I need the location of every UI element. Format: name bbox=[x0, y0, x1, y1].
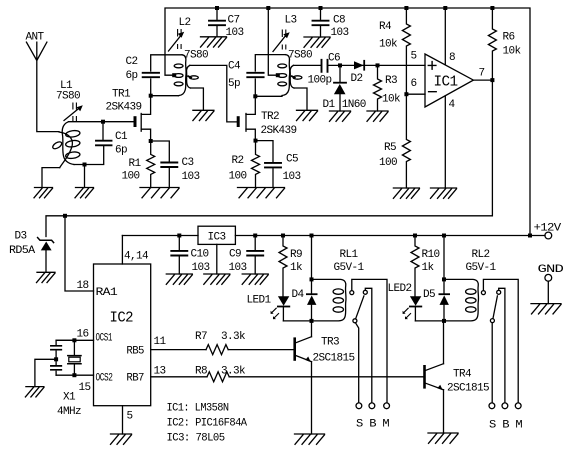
label parts list bbox=[167, 403, 248, 445]
crystal X1 4MHz bbox=[57, 340, 81, 418]
svg-text:D4: D4 bbox=[292, 289, 305, 301]
svg-text:C9: C9 bbox=[229, 249, 241, 261]
wire L2 secondary bottom to ground bbox=[190, 88, 203, 110]
svg-text:R1: R1 bbox=[129, 158, 142, 170]
svg-text:L3: L3 bbox=[285, 15, 297, 27]
node OCS2 bbox=[72, 373, 76, 377]
svg-text:TR3: TR3 bbox=[321, 337, 339, 349]
wire L3 rail drop bbox=[268, 8, 278, 75]
node rail-pin8 bbox=[443, 6, 447, 10]
ground TR4 bbox=[428, 433, 458, 443]
svg-text:RD5A: RD5A bbox=[9, 245, 36, 257]
wire detector line bbox=[293, 64, 425, 66]
svg-text:C6: C6 bbox=[328, 53, 340, 65]
wire +B top rail bbox=[165, 8, 530, 236]
ground C10 bbox=[166, 274, 192, 284]
transistor TR3 2SC1815 bbox=[295, 321, 355, 434]
svg-text:10k: 10k bbox=[379, 39, 398, 51]
wire LED1 to node bbox=[283, 320, 311, 322]
relay RL1 contacts bbox=[350, 279, 387, 403]
ground C8 bbox=[304, 37, 330, 47]
wire 5V line bbox=[122, 235, 198, 237]
svg-text:7S80: 7S80 bbox=[56, 91, 80, 103]
svg-text:G5V-1: G5V-1 bbox=[334, 262, 365, 274]
capacitor C7 103 bbox=[209, 8, 244, 39]
pin 15 wire bbox=[56, 374, 93, 376]
node TR1 drain bbox=[149, 94, 153, 98]
svg-text:D5: D5 bbox=[423, 289, 435, 301]
svg-text:6: 6 bbox=[411, 78, 417, 90]
node R4 R5 pin6 bbox=[404, 92, 408, 96]
svg-text:R4: R4 bbox=[379, 21, 392, 33]
node RA1 branch bbox=[63, 214, 67, 218]
diode D4 bbox=[292, 279, 317, 321]
node caps mid bbox=[54, 357, 58, 361]
relay RL1 G5V-1 bbox=[312, 249, 365, 321]
svg-text:TR1: TR1 bbox=[112, 89, 131, 101]
svg-text:5p: 5p bbox=[228, 78, 240, 90]
svg-text:G5V-1: G5V-1 bbox=[466, 262, 497, 274]
svg-text:2SC1815: 2SC1815 bbox=[447, 383, 489, 395]
svg-text:R5: R5 bbox=[384, 142, 396, 154]
terminal GND bbox=[538, 264, 565, 304]
wire RA1 branch bbox=[65, 216, 94, 291]
svg-text:RB5: RB5 bbox=[126, 346, 143, 358]
svg-text:D3: D3 bbox=[15, 231, 27, 243]
node C1 top bbox=[101, 120, 105, 124]
svg-text:C7: C7 bbox=[228, 15, 240, 27]
node C10 bbox=[177, 234, 181, 238]
svg-text:C3: C3 bbox=[182, 157, 194, 169]
ground GND terminal bbox=[531, 304, 561, 314]
node RL2 bottom bbox=[442, 319, 446, 323]
svg-text:TR4: TR4 bbox=[453, 369, 472, 381]
svg-text:1k: 1k bbox=[290, 262, 303, 274]
terminal RL2 S bbox=[489, 403, 495, 409]
node TR1 source bbox=[149, 139, 153, 143]
capacitor C9 103 bbox=[229, 236, 264, 275]
terminal RL2 M bbox=[515, 403, 521, 409]
svg-text:IC1: IC1 bbox=[434, 74, 459, 91]
capacitor C3 103 bbox=[151, 141, 200, 188]
coil L1 7S80 bbox=[52, 80, 83, 168]
resistor R10 1k bbox=[411, 236, 440, 297]
coil L2 7S80 bbox=[169, 17, 209, 96]
svg-text:C2: C2 bbox=[126, 56, 138, 68]
svg-text:3.3k: 3.3k bbox=[221, 331, 246, 343]
svg-text:OCS1: OCS1 bbox=[96, 333, 113, 345]
capacitor C8 103 bbox=[313, 8, 349, 39]
wire L1 bottom gnd leg bbox=[84, 165, 86, 188]
node rail-C8 bbox=[319, 6, 323, 10]
svg-text:C10: C10 bbox=[191, 249, 209, 261]
svg-text:10k: 10k bbox=[503, 46, 522, 58]
svg-text:IC1: LM358N: IC1: LM358N bbox=[167, 403, 229, 415]
svg-text:LED1: LED1 bbox=[247, 295, 272, 307]
capacitor X1 top bbox=[51, 340, 75, 359]
svg-text:3.3k: 3.3k bbox=[221, 366, 246, 378]
ground R3 bbox=[367, 111, 388, 121]
svg-text:7S80: 7S80 bbox=[288, 50, 312, 62]
coil L3 7S80 bbox=[273, 15, 312, 96]
svg-text:OCS2: OCS2 bbox=[96, 373, 113, 385]
ground L3 secondary bbox=[297, 110, 318, 120]
ground IC2 pin5 bbox=[111, 434, 132, 444]
svg-text:IC3: 78L05: IC3: 78L05 bbox=[167, 433, 225, 445]
node rail-R4 bbox=[404, 6, 408, 10]
capacitor C10 103 bbox=[171, 236, 209, 275]
svg-text:100: 100 bbox=[379, 157, 397, 169]
svg-text:100p: 100p bbox=[308, 75, 332, 87]
svg-text:15: 15 bbox=[79, 382, 91, 394]
IC3 78L05 box bbox=[198, 226, 235, 274]
svg-text:X1: X1 bbox=[63, 392, 76, 404]
wire IC1 output bbox=[473, 79, 492, 81]
node rail-R6 bbox=[490, 6, 494, 10]
node TR2 drain bbox=[253, 94, 257, 98]
svg-text:GND: GND bbox=[538, 264, 565, 276]
wire caps mid to ground bbox=[35, 359, 56, 386]
ground R5 bbox=[393, 188, 419, 198]
svg-text:RB7: RB7 bbox=[126, 373, 143, 385]
node TR2 source bbox=[254, 139, 258, 143]
resistor R8 3.3k bbox=[195, 366, 246, 382]
resistor R2 100 bbox=[229, 141, 260, 188]
ground C7 bbox=[201, 37, 227, 47]
wire RL1 feed bbox=[311, 236, 313, 280]
wire TR1 drain to L2 bottom bbox=[151, 95, 179, 97]
svg-text:103: 103 bbox=[192, 262, 210, 274]
node RL2 top bbox=[442, 277, 446, 281]
wire pin4 to ground bbox=[444, 96, 446, 188]
node RL1 top bbox=[310, 277, 314, 281]
capacitor C4 5p bbox=[228, 55, 286, 97]
svg-text:1k: 1k bbox=[422, 262, 435, 274]
transistor TR2 2SK439 bbox=[238, 96, 296, 140]
svg-text:13: 13 bbox=[154, 366, 166, 378]
ground X1 bbox=[25, 387, 44, 397]
terminal +12V bbox=[534, 223, 562, 239]
svg-text:R7: R7 bbox=[195, 331, 207, 343]
LED1 bbox=[247, 295, 290, 321]
wire RB5 to TR3 bbox=[151, 349, 294, 351]
svg-text:IC3: IC3 bbox=[208, 232, 226, 244]
svg-text:TR2: TR2 bbox=[261, 111, 279, 123]
node C9 bbox=[253, 234, 257, 238]
svg-text:R6: R6 bbox=[503, 32, 515, 44]
diode D2 bbox=[351, 61, 365, 85]
svg-text:6p: 6p bbox=[126, 70, 138, 82]
diode D1 1N60 bbox=[323, 65, 366, 111]
svg-text:1N60: 1N60 bbox=[342, 99, 366, 111]
node R10 bbox=[413, 234, 417, 238]
wire RL2 feed bbox=[443, 236, 445, 280]
ground IC3 bbox=[204, 274, 230, 284]
svg-text:S B M: S B M bbox=[356, 419, 389, 431]
ground L2 secondary bbox=[193, 110, 214, 120]
terminal RL2 B bbox=[502, 403, 508, 409]
svg-text:L2: L2 bbox=[179, 17, 191, 29]
svg-text:RL2: RL2 bbox=[472, 249, 490, 261]
svg-text:ANT: ANT bbox=[26, 32, 45, 44]
wire RB7 to TR4 bbox=[151, 376, 424, 378]
antenna ANT bbox=[26, 32, 60, 132]
LED2 bbox=[388, 283, 422, 321]
terminal RL1 S bbox=[356, 403, 362, 409]
pin 4,14 wire bbox=[121, 236, 123, 265]
svg-text:2SK439: 2SK439 bbox=[106, 102, 142, 114]
op-amp IC1 bbox=[411, 51, 485, 112]
resistor R5 100 bbox=[379, 94, 410, 188]
svg-text:100: 100 bbox=[122, 171, 140, 183]
svg-text:R9: R9 bbox=[290, 249, 302, 261]
svg-text:D2: D2 bbox=[351, 73, 363, 85]
node rail-L3 bbox=[266, 6, 270, 10]
svg-text:RA1: RA1 bbox=[96, 287, 119, 299]
wire L3 secondary bottom to ground bbox=[294, 88, 307, 110]
wire IC1 out to RA1 bbox=[46, 80, 492, 236]
ground C9 bbox=[242, 274, 268, 284]
svg-text:4MHz: 4MHz bbox=[57, 406, 81, 418]
wire TR2 drain to L3 bottom bbox=[255, 95, 282, 97]
node D1 bbox=[338, 63, 342, 67]
capacitor C5 103 bbox=[256, 141, 301, 188]
svg-text:103: 103 bbox=[331, 27, 349, 39]
resistor R6 10k bbox=[488, 8, 521, 80]
svg-text:7: 7 bbox=[479, 68, 485, 80]
node R9 bbox=[281, 234, 285, 238]
ground TR2 R2 C5 bbox=[238, 188, 285, 198]
svg-text:S B M: S B M bbox=[489, 420, 522, 432]
svg-text:C1: C1 bbox=[115, 131, 128, 143]
node R3 bbox=[376, 63, 380, 67]
capacitor C6 100p bbox=[308, 53, 341, 87]
IC2 PIC16F84A box bbox=[94, 264, 151, 406]
wire L1 primary ground leg bbox=[42, 168, 60, 188]
svg-text:R10: R10 bbox=[422, 249, 440, 261]
transistor TR1 2SK439 bbox=[106, 89, 151, 142]
resistor R4 10k bbox=[379, 8, 410, 94]
resistor R9 1k bbox=[279, 236, 303, 297]
ground R1 C3 bbox=[140, 188, 179, 198]
svg-text:R2: R2 bbox=[232, 155, 244, 167]
node rail-C7 bbox=[215, 6, 219, 10]
svg-text:IC2: IC2 bbox=[110, 310, 134, 327]
ground L1 tank bbox=[75, 188, 94, 198]
svg-text:100: 100 bbox=[229, 171, 247, 183]
terminal RL1 B bbox=[369, 403, 375, 409]
diode D5 bbox=[423, 279, 449, 321]
capacitor C1 6p bbox=[96, 122, 128, 157]
pin 5 wire bbox=[122, 406, 124, 434]
wire pin8 bbox=[444, 8, 446, 65]
node IC1 out bbox=[490, 78, 494, 82]
resistor R1 100 bbox=[122, 141, 155, 188]
svg-text:16: 16 bbox=[77, 329, 89, 341]
wire 12V rail bbox=[235, 235, 545, 237]
node RL2 rail bbox=[442, 234, 446, 238]
svg-text:6p: 6p bbox=[115, 145, 127, 157]
svg-text:2SC1815: 2SC1815 bbox=[313, 353, 355, 365]
svg-text:C4: C4 bbox=[228, 61, 241, 73]
svg-text:R8: R8 bbox=[195, 366, 207, 378]
svg-text:103: 103 bbox=[283, 171, 301, 183]
svg-text:103: 103 bbox=[229, 262, 247, 274]
svg-text:C5: C5 bbox=[286, 154, 298, 166]
wire LED2 to node bbox=[415, 320, 444, 322]
svg-text:5: 5 bbox=[127, 411, 133, 423]
wire L1 tank bottom bbox=[74, 147, 104, 165]
wire pin6 bbox=[406, 93, 425, 95]
ground D1 bbox=[330, 111, 351, 121]
node RL1 bottom bbox=[310, 319, 314, 323]
capacitor X1 bottom bbox=[51, 359, 61, 375]
svg-text:RL1: RL1 bbox=[340, 249, 359, 261]
transistor TR4 2SC1815 bbox=[425, 321, 490, 433]
terminal RL1 M bbox=[384, 403, 390, 409]
svg-text:7S80: 7S80 bbox=[184, 50, 208, 62]
resistor R3 10k bbox=[374, 65, 402, 111]
resistor R7 3.3k bbox=[195, 331, 246, 355]
wire L1 tank top to gate bbox=[69, 121, 135, 123]
node RL1 rail bbox=[310, 234, 314, 238]
relay RL2 contacts bbox=[481, 279, 518, 403]
svg-text:D1: D1 bbox=[323, 99, 336, 111]
ground L1 primary bbox=[34, 188, 53, 198]
svg-text:103: 103 bbox=[182, 171, 200, 183]
svg-text:2SK439: 2SK439 bbox=[261, 125, 297, 137]
zener D3 RD5A bbox=[9, 231, 54, 273]
node L2 tap bbox=[172, 73, 176, 77]
node OCS1 bbox=[72, 338, 76, 342]
svg-text:C8: C8 bbox=[333, 15, 345, 27]
svg-text:5: 5 bbox=[411, 51, 417, 63]
node L1 bottom gnd bbox=[83, 163, 87, 167]
relay RL2 G5V-1 bbox=[444, 249, 497, 321]
svg-text:4: 4 bbox=[449, 99, 456, 111]
svg-text:4,14: 4,14 bbox=[124, 251, 149, 263]
ground TR3 bbox=[295, 434, 325, 444]
svg-text:18: 18 bbox=[77, 280, 89, 292]
ground IC1 pin4 bbox=[431, 188, 457, 198]
node rail drop 12V bbox=[528, 234, 532, 238]
capacitor C2 6p bbox=[126, 55, 183, 96]
ground D3 bbox=[37, 272, 56, 282]
wire L2 secondary out to TR2 gate bbox=[190, 65, 237, 122]
svg-text:10k: 10k bbox=[382, 94, 401, 106]
svg-text:103: 103 bbox=[226, 27, 244, 39]
svg-text:8: 8 bbox=[449, 52, 455, 64]
svg-text:11: 11 bbox=[154, 336, 167, 348]
node L3 tap bbox=[276, 73, 280, 77]
pin 16 wire bbox=[56, 339, 93, 341]
svg-text:IC2: PIC16F84A: IC2: PIC16F84A bbox=[167, 418, 248, 430]
svg-text:R3: R3 bbox=[385, 75, 397, 87]
svg-text:LED2: LED2 bbox=[388, 283, 412, 295]
